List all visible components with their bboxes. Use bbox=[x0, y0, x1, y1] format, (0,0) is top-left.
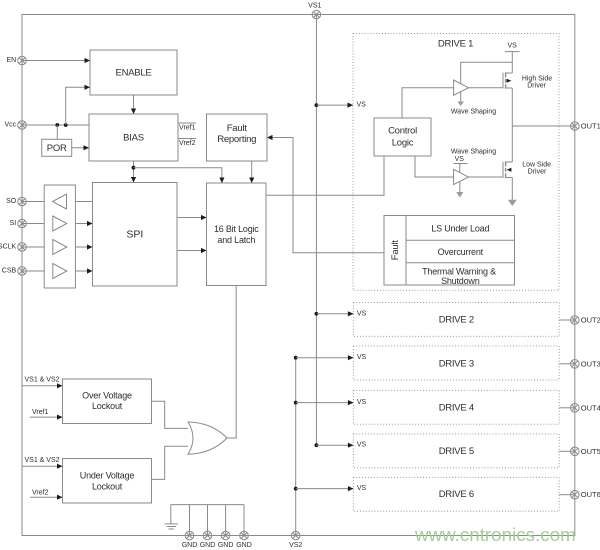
wire high side source to OUT1 and low side drain bbox=[511, 88, 513, 162]
svg-text:Vref2: Vref2 bbox=[32, 489, 49, 496]
wire OUT5 bbox=[559, 450, 575, 452]
wire SPI to 16-bit logic upper bbox=[177, 217, 207, 219]
block Under Voltage Lockout bbox=[63, 459, 152, 504]
label Vref1 output with overline bbox=[178, 122, 196, 124]
pin GND 2 bbox=[200, 531, 216, 549]
label Vref2 output with overline bbox=[178, 138, 196, 140]
svg-text:DRIVE 4: DRIVE 4 bbox=[439, 402, 474, 413]
buffer low side wave shaping bbox=[454, 169, 469, 184]
svg-text:OUT3: OUT3 bbox=[581, 359, 600, 368]
svg-text:BIAS: BIAS bbox=[123, 133, 144, 144]
wire VS1 vertical bus bbox=[315, 15, 317, 446]
svg-text:and Latch: and Latch bbox=[217, 235, 255, 245]
pin EN bbox=[6, 56, 26, 65]
svg-text:VS: VS bbox=[508, 43, 518, 50]
buffer high side wave shaping bbox=[454, 80, 469, 95]
svg-text:Control: Control bbox=[388, 126, 417, 137]
svg-text:Shutdown: Shutdown bbox=[441, 276, 480, 286]
svg-text:EN: EN bbox=[6, 57, 16, 64]
svg-text:VS1 & VS2: VS1 & VS2 bbox=[25, 376, 60, 383]
svg-text:Over Voltage: Over Voltage bbox=[82, 391, 132, 401]
wire BIAS branch to 16-bit logic bbox=[134, 168, 222, 183]
wire OVL to OR gate bbox=[152, 401, 189, 428]
wire VS to high side drain and buffer bbox=[511, 52, 513, 73]
wire Fault block to Fault Reporting bbox=[267, 138, 384, 253]
dashed box DRIVE 6 bbox=[353, 477, 559, 511]
svg-text:Wave Shaping: Wave Shaping bbox=[451, 149, 496, 156]
svg-text:Lockout: Lockout bbox=[92, 401, 123, 411]
node VS branch to DRIVE 1 bbox=[315, 103, 319, 107]
node VS branch to DRIVE 5 bbox=[315, 443, 319, 447]
transistor Q2 low side MOSFET bbox=[503, 161, 512, 178]
ground arrow below low side buffer bbox=[456, 192, 463, 198]
svg-text:Overcurrent: Overcurrent bbox=[438, 247, 484, 257]
svg-text:DRIVE 6: DRIVE 6 bbox=[439, 489, 474, 500]
block BIAS bbox=[89, 114, 178, 161]
wire GND bus bbox=[171, 504, 244, 506]
wire Control Logic to low side buffer bbox=[415, 156, 454, 177]
svg-text:Vcc: Vcc bbox=[5, 122, 17, 129]
wire SI bbox=[22, 223, 93, 225]
svg-text:High Side: High Side bbox=[522, 75, 552, 82]
svg-text:Low Side: Low Side bbox=[522, 161, 551, 168]
dashed box DRIVE 4 bbox=[353, 390, 559, 424]
svg-text:OUT5: OUT5 bbox=[581, 447, 600, 456]
wire Vcc branch to ENABLE bbox=[66, 87, 90, 125]
wire VS into DRIVE 4 bbox=[296, 402, 354, 404]
svg-text:Driver: Driver bbox=[528, 168, 547, 175]
wire POR to BIAS bbox=[72, 147, 89, 149]
svg-text:VS: VS bbox=[357, 354, 367, 361]
pin GND 1 bbox=[182, 531, 198, 549]
svg-text:GND: GND bbox=[182, 542, 198, 549]
svg-text:VS: VS bbox=[357, 485, 367, 492]
wire SCLK bbox=[22, 246, 93, 248]
wire OUT6 bbox=[559, 494, 575, 496]
svg-text:Fault: Fault bbox=[390, 240, 401, 260]
pin SO bbox=[6, 197, 26, 206]
block Fault Reporting bbox=[207, 114, 268, 161]
svg-text:ENABLE: ENABLE bbox=[116, 68, 152, 79]
svg-text:OUT6: OUT6 bbox=[581, 490, 600, 499]
svg-text:VS: VS bbox=[357, 399, 367, 406]
node VS branch to DRIVE 4 bbox=[294, 401, 298, 405]
block Control Logic bbox=[374, 118, 431, 156]
svg-text:OUT4: OUT4 bbox=[581, 403, 600, 412]
block Over Voltage Lockout bbox=[63, 379, 152, 424]
dashed box DRIVE 5 bbox=[353, 434, 559, 468]
wire VS into DRIVE 1 bbox=[316, 104, 353, 106]
wire low side source to ground bbox=[511, 178, 513, 200]
ground arrow low side source bbox=[508, 200, 517, 206]
wire Vcc to BIAS bbox=[22, 124, 89, 126]
wire low side buffer to gate bbox=[469, 176, 504, 178]
svg-text:VS: VS bbox=[357, 310, 367, 317]
dashed box DRIVE 2 bbox=[353, 303, 559, 337]
wire high side buffer to gate bbox=[469, 87, 504, 89]
buffer CSB bbox=[53, 264, 67, 279]
wire OUT4 bbox=[559, 407, 575, 409]
transistor Q1 high side MOSFET bbox=[503, 72, 512, 88]
svg-text:VS1: VS1 bbox=[308, 2, 321, 9]
wire SPI to 16-bit logic lower bbox=[177, 250, 207, 252]
svg-text:OUT2: OUT2 bbox=[581, 316, 600, 325]
ground symbol bbox=[170, 505, 172, 524]
wire VS into DRIVE 5 bbox=[316, 444, 353, 446]
svg-text:LS Under Load: LS Under Load bbox=[431, 223, 489, 233]
pin GND 4 bbox=[236, 531, 252, 549]
wire GND stubs bbox=[189, 505, 191, 536]
wire CSB bbox=[22, 270, 93, 272]
block POR bbox=[42, 139, 72, 156]
svg-text:Under Voltage: Under Voltage bbox=[80, 471, 135, 481]
wire BIAS to SPI bbox=[133, 161, 135, 183]
ground arrow below high side buffer bbox=[458, 102, 464, 107]
buffer SI bbox=[53, 216, 67, 231]
wire VS into DRIVE 2 bbox=[316, 313, 353, 315]
node Vcc junction 2 bbox=[64, 123, 68, 127]
svg-text:www.cntronics.com: www.cntronics.com bbox=[414, 524, 576, 545]
pin OUT3 bbox=[571, 359, 600, 368]
svg-text:Vref2: Vref2 bbox=[179, 140, 196, 147]
buffer SCLK bbox=[53, 240, 67, 255]
svg-text:DRIVE 2: DRIVE 2 bbox=[439, 315, 474, 326]
svg-text:DRIVE 3: DRIVE 3 bbox=[439, 358, 474, 369]
wire ENABLE to BIAS bbox=[133, 95, 135, 114]
block Fault table bbox=[384, 216, 515, 286]
pin VS2 bbox=[289, 531, 302, 549]
buffer SO (output) bbox=[53, 194, 67, 209]
wire EN to ENABLE bbox=[22, 60, 90, 62]
svg-text:Reporting: Reporting bbox=[217, 134, 256, 145]
wire OUT1 bbox=[512, 125, 575, 127]
wire Fault Reporting to 16-bit logic bbox=[251, 161, 253, 183]
block ENABLE bbox=[90, 50, 177, 95]
wire Control Logic to high side buffer bbox=[402, 88, 454, 118]
wire VS into low side buffer bbox=[459, 164, 461, 193]
node Vcc junction 1 bbox=[55, 123, 59, 127]
svg-text:GND: GND bbox=[236, 542, 252, 549]
svg-text:SCLK: SCLK bbox=[0, 244, 17, 251]
wire VS1 & VS2 input to OVL bbox=[23, 385, 63, 387]
dashed box DRIVE 1 bbox=[353, 34, 559, 291]
pin OUT4 bbox=[571, 403, 600, 412]
wire SO bbox=[22, 201, 93, 203]
svg-text:SPI: SPI bbox=[126, 229, 143, 241]
svg-text:Logic: Logic bbox=[392, 138, 414, 149]
svg-text:GND: GND bbox=[218, 542, 234, 549]
wire Vref2 input to UVL bbox=[30, 496, 63, 498]
svg-text:VS2: VS2 bbox=[289, 542, 302, 549]
svg-text:Driver: Driver bbox=[527, 82, 546, 89]
pin OUT2 bbox=[571, 316, 600, 325]
wire Vcc to POR bbox=[56, 125, 58, 139]
svg-text:POR: POR bbox=[47, 143, 67, 154]
pin OUT5 bbox=[571, 447, 600, 456]
pin CSB bbox=[2, 267, 27, 276]
svg-text:16 Bit Logic: 16 Bit Logic bbox=[214, 224, 259, 234]
wire Vref1 input to OVL bbox=[30, 416, 63, 418]
pin VS1 bbox=[308, 2, 321, 19]
svg-text:VS1 & VS2: VS1 & VS2 bbox=[25, 457, 60, 464]
wire VS into DRIVE 6 bbox=[296, 488, 354, 490]
svg-text:Vref1: Vref1 bbox=[32, 409, 49, 416]
svg-text:SI: SI bbox=[10, 220, 17, 227]
wire OUT3 bbox=[559, 363, 575, 365]
pin OUT1 bbox=[571, 122, 600, 131]
svg-text:Thermal Warning &: Thermal Warning & bbox=[422, 266, 496, 276]
node BIAS output junction bbox=[132, 166, 136, 170]
pin SCLK bbox=[0, 243, 26, 252]
wire OUT2 bbox=[559, 319, 575, 321]
svg-text:OUT1: OUT1 bbox=[581, 122, 600, 131]
block 16 Bit Logic and Latch bbox=[207, 183, 267, 286]
svg-text:DRIVE 5: DRIVE 5 bbox=[439, 446, 474, 457]
pin Vcc bbox=[5, 121, 27, 130]
wire VS1 & VS2 input to UVL bbox=[23, 465, 63, 467]
svg-text:SO: SO bbox=[6, 198, 17, 205]
node VS branch to DRIVE 6 bbox=[294, 487, 298, 491]
svg-text:DRIVE 1: DRIVE 1 bbox=[438, 39, 473, 50]
node VS branch to DRIVE 3 bbox=[294, 356, 298, 360]
svg-text:CSB: CSB bbox=[2, 268, 17, 275]
pin SI bbox=[10, 219, 27, 228]
svg-text:Lockout: Lockout bbox=[92, 482, 123, 492]
svg-text:Wave Shaping: Wave Shaping bbox=[451, 109, 496, 116]
gate OR bbox=[188, 422, 227, 454]
svg-text:VS: VS bbox=[357, 442, 367, 449]
wire 16-bit logic to OR gate output bbox=[227, 286, 236, 439]
svg-text:GND: GND bbox=[200, 542, 216, 549]
pin OUT6 bbox=[571, 490, 600, 499]
dashed box DRIVE 3 bbox=[353, 346, 559, 380]
block input buffer bank bbox=[44, 185, 75, 288]
node VS branch to DRIVE 2 bbox=[315, 312, 319, 316]
pin GND 3 bbox=[218, 531, 234, 549]
wire UVL to OR gate bbox=[152, 446, 189, 479]
wire 16-bit logic to Control Logic bbox=[266, 156, 384, 195]
svg-text:Fault: Fault bbox=[227, 123, 247, 134]
svg-text:VS: VS bbox=[455, 156, 465, 163]
wire VS into DRIVE 3 bbox=[296, 357, 354, 359]
block SPI bbox=[93, 183, 178, 287]
svg-text:Vref1: Vref1 bbox=[179, 124, 196, 131]
svg-text:VS: VS bbox=[357, 102, 367, 109]
wire VS2 vertical bus bbox=[295, 358, 297, 536]
